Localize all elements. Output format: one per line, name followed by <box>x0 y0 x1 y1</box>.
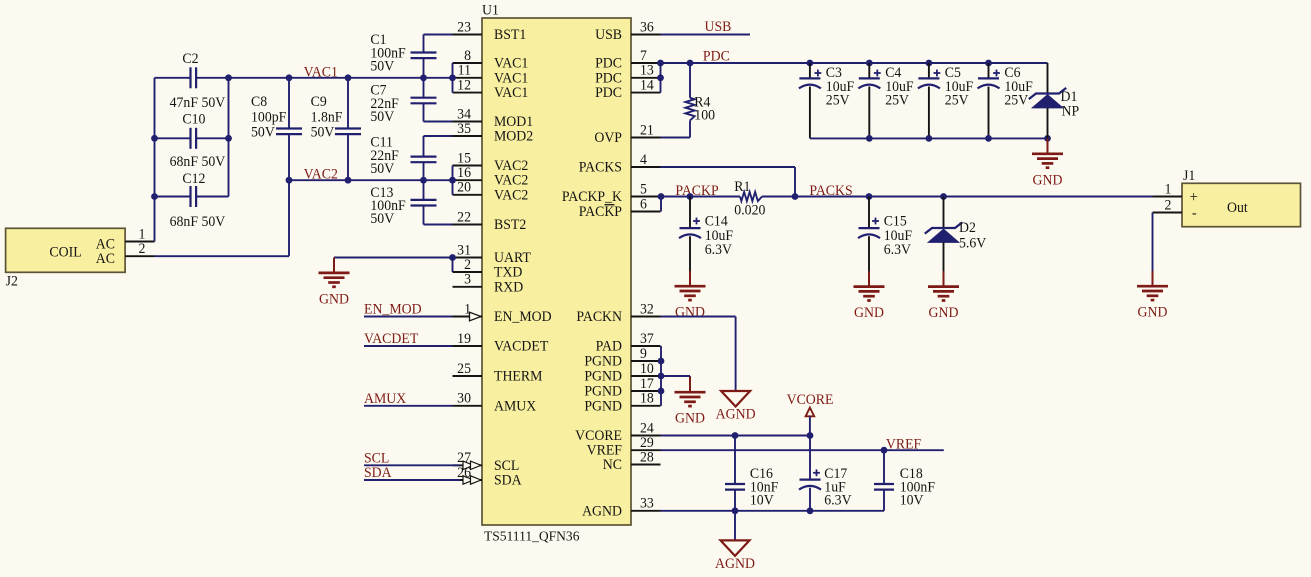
svg-text:J1: J1 <box>1183 168 1195 184</box>
svg-text:PGND: PGND <box>584 353 622 369</box>
net label VREF <box>886 436 921 452</box>
J1 pin 1 <box>1153 181 1183 197</box>
pin 28 NC (right) <box>603 449 661 473</box>
svg-text:1.8nF: 1.8nF <box>311 109 343 125</box>
svg-text:-: - <box>1192 205 1197 221</box>
capacitor C14 <box>679 197 733 272</box>
node PACKS junctions <box>658 193 947 200</box>
svg-text:VAC2: VAC2 <box>304 166 338 182</box>
ground GND (J1) <box>1137 271 1168 321</box>
svg-text:100: 100 <box>694 107 715 123</box>
svg-text:68nF 50V: 68nF 50V <box>170 154 226 170</box>
svg-text:AGND: AGND <box>715 556 755 572</box>
svg-text:PAD: PAD <box>596 338 622 354</box>
diode D1 <box>1029 63 1080 138</box>
svg-text:5.6V: 5.6V <box>959 235 987 251</box>
svg-text:100pF: 100pF <box>251 109 286 125</box>
capacitor C9 <box>311 78 361 180</box>
node left bus junctions <box>151 135 158 200</box>
wire right bus vertical <box>228 78 230 197</box>
capacitor C4 <box>858 63 913 138</box>
pin 18 PGND (right) <box>584 390 660 414</box>
pin 24 VCORE (right) <box>575 420 660 444</box>
svg-text:36: 36 <box>640 19 654 35</box>
net label AMUX <box>364 391 406 407</box>
svg-text:28: 28 <box>640 449 654 465</box>
svg-text:AMUX: AMUX <box>494 398 536 414</box>
svg-text:C2: C2 <box>182 51 198 67</box>
wire J2 pin2 to VAC2 <box>155 180 290 256</box>
svg-text:SDA: SDA <box>364 465 392 481</box>
capacitor C3 <box>799 63 854 138</box>
svg-text:VACDET: VACDET <box>364 331 419 347</box>
svg-text:50V: 50V <box>370 58 395 74</box>
pin 8 VAC1 (left) <box>453 48 529 72</box>
svg-text:10: 10 <box>640 361 654 377</box>
net label VAC2 <box>304 166 338 182</box>
analog ground AGND (bottom) <box>715 540 755 572</box>
ground GND (D2) <box>928 271 959 321</box>
svg-text:NC: NC <box>603 457 622 473</box>
wire pin4 to PACKS <box>661 167 796 197</box>
capacitor C11 <box>370 134 452 180</box>
net label SDA <box>364 465 392 481</box>
svg-text:C9: C9 <box>311 94 327 110</box>
svg-text:20: 20 <box>457 179 471 195</box>
svg-text:37: 37 <box>640 331 654 347</box>
svg-text:AGND: AGND <box>716 406 756 422</box>
svg-text:30: 30 <box>457 390 471 406</box>
svg-text:12: 12 <box>457 77 471 93</box>
net label EN_MOD <box>364 301 422 317</box>
svg-text:VAC1: VAC1 <box>304 64 338 80</box>
wire USB <box>661 34 751 36</box>
wire PGND to GND <box>661 376 690 378</box>
svg-text:50V: 50V <box>370 161 395 177</box>
wire left bus vertical <box>154 78 156 242</box>
node PGND junctions <box>658 358 665 395</box>
pin 1 EN_MOD (left) <box>453 301 552 325</box>
capacitor C13 <box>370 180 452 227</box>
wire C12 row <box>155 196 229 198</box>
capacitor C2 <box>170 51 226 111</box>
svg-text:COIL: COIL <box>49 244 81 260</box>
pin 32 PACKN (right) <box>576 301 660 325</box>
capacitor C15 <box>858 197 912 272</box>
power symbol VCORE <box>787 392 834 436</box>
resistor R1 <box>734 179 765 219</box>
svg-text:10V: 10V <box>750 492 775 508</box>
svg-text:R1: R1 <box>734 179 750 195</box>
node VAC2 junctions <box>286 177 456 184</box>
svg-text:6: 6 <box>640 196 647 212</box>
svg-text:VACDET: VACDET <box>494 338 549 354</box>
svg-text:9: 9 <box>640 346 647 362</box>
node cap bus junctions <box>866 135 1051 142</box>
svg-text:0.020: 0.020 <box>734 202 765 218</box>
net label PDC <box>703 48 730 64</box>
wire J1 pin2 to GND <box>1152 213 1154 272</box>
svg-text:+: + <box>1190 189 1198 206</box>
ground GND (C14) <box>675 271 706 321</box>
svg-text:AGND: AGND <box>582 503 622 519</box>
svg-text:BST2: BST2 <box>494 217 526 233</box>
pin 14 PDC (right) <box>595 77 660 101</box>
J2 pin 2 <box>125 241 154 257</box>
svg-text:THERM: THERM <box>494 368 543 384</box>
pin 29 VREF (right) <box>587 435 661 459</box>
ground GND (UART) <box>319 258 350 308</box>
svg-text:25: 25 <box>457 361 471 377</box>
wire PACKN <box>661 317 736 392</box>
svg-text:BST1: BST1 <box>494 27 526 43</box>
pin 17 PGND (right) <box>584 376 660 400</box>
svg-text:6.3V: 6.3V <box>824 492 852 508</box>
svg-text:1: 1 <box>1165 181 1172 197</box>
pin 22 BST2 (left) <box>453 209 527 233</box>
wire VAC2 row <box>289 179 453 181</box>
pin 37 PAD (right) <box>596 331 661 355</box>
svg-text:PACKS: PACKS <box>579 159 622 175</box>
svg-text:C8: C8 <box>251 94 267 110</box>
svg-text:23: 23 <box>457 19 471 35</box>
svg-text:PDC: PDC <box>595 85 622 101</box>
capacitor C7 <box>370 78 452 125</box>
pin 12 VAC1 (left) <box>453 77 529 101</box>
wire bracket pins 15-16-20 <box>452 166 454 195</box>
svg-text:GND: GND <box>1033 172 1063 188</box>
svg-text:5: 5 <box>640 181 647 197</box>
wire PDC cap bottom bus <box>810 137 1048 139</box>
svg-text:GND: GND <box>675 304 705 320</box>
wire VREF row <box>661 449 944 451</box>
svg-text:25V: 25V <box>945 92 970 108</box>
svg-text:OVP: OVP <box>594 130 622 146</box>
diode D2 <box>925 197 987 272</box>
capacitor C17 <box>799 436 852 511</box>
wire bracket pins 37-9-10-17-18 <box>660 346 662 406</box>
wire VCORE row <box>661 435 811 437</box>
svg-text:GND: GND <box>854 305 884 321</box>
capacitor C18 <box>874 450 935 511</box>
connector J2 COIL <box>6 228 126 289</box>
svg-text:PACKP: PACKP <box>675 183 718 199</box>
pin 27 SCL (left) <box>453 450 520 474</box>
net label VACDET <box>364 331 419 347</box>
node right bus junction <box>225 135 232 142</box>
ground GND (D1) <box>1032 138 1063 188</box>
capacitor C10 <box>170 111 226 170</box>
capacitor C16 <box>725 436 778 511</box>
pin 36 USB (right) <box>595 19 660 43</box>
svg-text:D2: D2 <box>959 220 976 236</box>
svg-text:MOD2: MOD2 <box>494 128 533 144</box>
pin 6 PACKPK (right) <box>579 196 661 220</box>
wire PACKS segment <box>762 196 1153 198</box>
svg-text:22: 22 <box>457 209 471 225</box>
wire VACDET <box>364 345 453 347</box>
svg-text:SDA: SDA <box>494 472 522 488</box>
capacitor C8 <box>251 78 302 180</box>
svg-text:25V: 25V <box>826 92 851 108</box>
pin 15 VAC2 (left) <box>453 150 529 174</box>
net label SCL <box>364 450 389 466</box>
svg-text:PGND: PGND <box>584 398 622 414</box>
svg-text:PGND: PGND <box>584 368 622 384</box>
analog ground AGND (PACKN) <box>716 391 756 423</box>
pin 7 PDC (right) <box>595 48 660 72</box>
svg-text:GND: GND <box>319 291 349 307</box>
wire SDA <box>364 479 460 481</box>
svg-text:21: 21 <box>640 122 654 138</box>
pin 30 AMUX (left) <box>453 390 537 414</box>
capacitor C6 <box>978 63 1033 138</box>
ground GND (C15) <box>854 271 885 321</box>
pin 16 VAC2 (left) <box>453 165 529 189</box>
svg-text:PACKN: PACKN <box>576 309 622 325</box>
svg-text:VREF: VREF <box>886 436 921 452</box>
node VAC1 junctions <box>225 74 456 81</box>
svg-text:VAC2: VAC2 <box>494 187 528 203</box>
svg-text:GND: GND <box>675 410 705 426</box>
pin 23 BST1 (left) <box>453 19 527 43</box>
pin 20 VAC2 (left) <box>453 179 529 203</box>
svg-text:EN_MOD: EN_MOD <box>364 301 422 317</box>
svg-text:USB: USB <box>705 19 732 35</box>
svg-text:32: 32 <box>640 301 654 317</box>
svg-text:50V: 50V <box>311 124 336 140</box>
svg-text:3: 3 <box>464 271 471 287</box>
svg-text:AMUX: AMUX <box>364 391 406 407</box>
net label USB <box>705 19 732 35</box>
pin 10 PGND (right) <box>584 361 660 385</box>
wire PACKP segment <box>661 196 740 198</box>
wire bracket pins 31-2 <box>452 258 454 273</box>
net label PACKP <box>675 183 718 199</box>
svg-text:47nF 50V: 47nF 50V <box>170 95 226 111</box>
wire bracket pins 5-6 <box>660 197 662 212</box>
wire EN_MOD <box>364 316 453 318</box>
svg-text:25V: 25V <box>1004 92 1029 108</box>
wire AMUX <box>364 405 453 407</box>
svg-text:PDC: PDC <box>703 48 730 64</box>
wire C16 to AGND <box>734 511 736 541</box>
wire VAC1 row <box>155 77 453 79</box>
node AGND row junctions <box>732 507 814 514</box>
IC U1 TS51111_QFN36 <box>482 2 631 543</box>
wire UART to GND <box>334 258 453 260</box>
svg-text:J2: J2 <box>6 273 18 289</box>
wire PDC row <box>661 62 1048 64</box>
svg-text:50V: 50V <box>370 211 395 227</box>
pin 25 THERM (left) <box>453 361 543 385</box>
svg-text:TS51111_QFN36: TS51111_QFN36 <box>484 528 580 543</box>
svg-text:PACKP: PACKP <box>579 204 622 220</box>
ground GND (PGND) <box>675 377 706 427</box>
svg-text:1: 1 <box>464 301 471 317</box>
capacitor C12 <box>170 171 226 230</box>
pin 35 MOD2 (left) <box>453 121 534 145</box>
pin 34 MOD1 (left) <box>453 106 534 130</box>
pin 31 UART (left) <box>453 242 532 266</box>
svg-text:AC: AC <box>96 251 115 267</box>
svg-text:PACKP_K: PACKP_K <box>562 189 623 205</box>
capacitor C1 <box>370 32 452 78</box>
svg-text:VAC1: VAC1 <box>494 85 528 101</box>
wire C10 row <box>155 137 229 139</box>
svg-text:68nF 50V: 68nF 50V <box>170 214 226 230</box>
svg-text:35: 35 <box>457 121 471 137</box>
svg-text:VCORE: VCORE <box>787 392 834 408</box>
svg-text:C12: C12 <box>182 171 205 187</box>
pin 3 RXD (left) <box>453 271 524 295</box>
capacitor C5 <box>918 63 973 138</box>
svg-text:6.3V: 6.3V <box>705 242 733 258</box>
svg-text:Out: Out <box>1227 200 1248 216</box>
node VREF junction <box>881 447 888 454</box>
svg-text:RXD: RXD <box>494 279 523 295</box>
svg-text:14: 14 <box>640 77 654 93</box>
svg-text:50V: 50V <box>251 124 276 140</box>
node UART junction <box>449 254 456 261</box>
svg-text:26: 26 <box>457 465 471 481</box>
wire SCL <box>364 464 460 466</box>
pin 5 PACKP_K (right) <box>562 181 661 205</box>
pin 11 VAC1 (left) <box>453 62 529 86</box>
svg-text:GND: GND <box>929 305 959 321</box>
svg-text:U1: U1 <box>482 2 499 18</box>
svg-text:PACKS: PACKS <box>809 183 852 199</box>
svg-text:6.3V: 6.3V <box>884 242 912 258</box>
pin 26 SDA (left) <box>453 465 523 489</box>
pin 21 OVP (right) <box>594 122 660 146</box>
svg-text:19: 19 <box>457 331 471 347</box>
svg-text:EN_MOD: EN_MOD <box>494 309 552 325</box>
svg-text:18: 18 <box>640 390 654 406</box>
svg-text:25V: 25V <box>885 92 910 108</box>
pin 9 PGND (right) <box>584 346 660 370</box>
svg-text:C10: C10 <box>182 111 205 127</box>
svg-text:4: 4 <box>640 152 647 168</box>
svg-text:2: 2 <box>1165 197 1172 213</box>
J1 pin 2 <box>1153 197 1183 213</box>
node VCORE junctions <box>732 432 814 439</box>
svg-text:GND: GND <box>1138 304 1168 320</box>
wire bracket pins 8-11-12 <box>452 63 454 93</box>
wire bracket pins 7-13-14 <box>660 63 662 93</box>
net label VAC1 <box>304 64 338 80</box>
pin 13 PDC (right) <box>595 62 660 86</box>
node PDC junctions <box>657 60 992 82</box>
J2 pin 1 <box>125 226 154 242</box>
svg-text:50V: 50V <box>370 109 395 125</box>
connector J1 Out <box>1182 168 1301 227</box>
pin 2 TXD (left) <box>453 257 523 281</box>
svg-text:NP: NP <box>1062 103 1080 119</box>
svg-text:10V: 10V <box>900 492 925 508</box>
svg-text:33: 33 <box>640 495 654 511</box>
pin 33 AGND (right) <box>582 495 660 519</box>
svg-text:USB: USB <box>595 27 622 43</box>
resistor R4 <box>661 63 716 138</box>
pin 19 VACDET (left) <box>453 331 549 355</box>
net label PACKS <box>809 183 852 199</box>
svg-text:2: 2 <box>139 241 146 257</box>
wire AGND row <box>661 510 885 512</box>
pin 4 PACKS (right) <box>579 152 661 176</box>
